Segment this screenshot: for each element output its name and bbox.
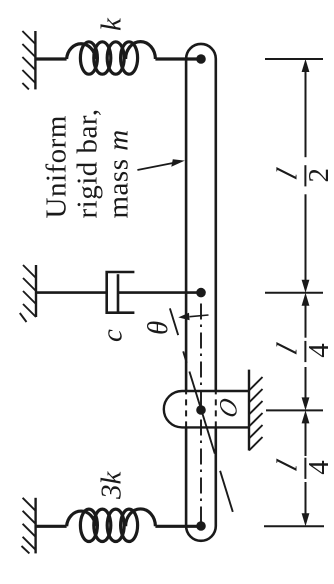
leader arrow from text to bar bbox=[137, 163, 173, 170]
wall k hatching bbox=[22, 31, 35, 89]
svg-text:4: 4 bbox=[303, 343, 334, 358]
svg-text:l: l bbox=[271, 456, 303, 475]
hidden bar top edge (dashed behind bracket) bbox=[185, 391, 187, 427]
svg-text:3k: 3k bbox=[96, 471, 128, 501]
extension line left end bbox=[264, 525, 324, 527]
equilibrium centerline (dash-dot) bbox=[200, 304, 202, 527]
displaced bar position (dashed) bbox=[170, 308, 233, 512]
extension line damper bbox=[265, 292, 323, 294]
dimension l/4 (pivot to damper) bbox=[305, 305, 307, 399]
pivot bracket bbox=[164, 391, 249, 427]
svg-text:k: k bbox=[96, 17, 128, 31]
svg-text:l: l bbox=[271, 340, 303, 359]
ground line at pivot bbox=[248, 370, 250, 451]
spring k bbox=[35, 42, 201, 75]
extension line pivot bbox=[266, 409, 323, 411]
svg-text:mass m: mass m bbox=[103, 129, 135, 218]
wall anchor for damper c bbox=[35, 265, 37, 317]
dimension l/2 (damper to right end) bbox=[305, 71, 307, 281]
attachment dot left end bbox=[196, 521, 206, 531]
wall anchor for spring k bbox=[34, 31, 36, 89]
damper wall hatching bbox=[20, 265, 36, 322]
svg-text:2: 2 bbox=[303, 168, 334, 183]
damper c bbox=[36, 272, 201, 313]
hidden bar bottom edge (dashed behind bracket) bbox=[215, 391, 217, 427]
svg-text:Uniform: Uniform bbox=[41, 115, 73, 218]
wall anchor for spring 3k bbox=[34, 498, 36, 554]
spring 3k bbox=[36, 509, 202, 542]
attachment dot damper bbox=[196, 288, 206, 298]
annotation text: Uniform rigid bar, mass m bbox=[41, 108, 135, 218]
svg-text:c: c bbox=[96, 329, 128, 342]
svg-text:l: l bbox=[271, 165, 303, 184]
svg-text:4: 4 bbox=[303, 460, 334, 475]
angle theta arrow bbox=[190, 315, 209, 317]
pivot dot O bbox=[196, 405, 206, 415]
svg-text:θ: θ bbox=[142, 321, 174, 335]
extension line right end bbox=[265, 58, 323, 60]
wall 3k hatching bbox=[22, 498, 36, 554]
attachment dot right end bbox=[196, 54, 206, 64]
ground hatching bbox=[249, 377, 263, 451]
svg-text:rigid bar,: rigid bar, bbox=[72, 108, 104, 218]
rigid bar (stadium outline, mass m) bbox=[186, 44, 216, 541]
dimension l/4 (left end to pivot) bbox=[305, 422, 307, 514]
